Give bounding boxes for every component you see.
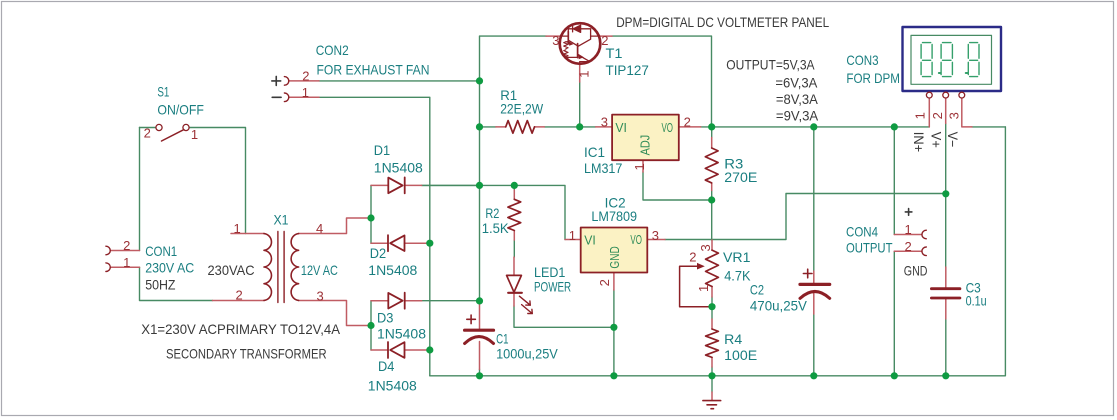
transformer X1 secondary winding — [291, 234, 298, 301]
svg-text:12V AC: 12V AC — [301, 262, 338, 278]
svg-text:=9V,3A: =9V,3A — [776, 108, 819, 124]
diode D1 — [388, 177, 404, 193]
pin D3 left — [371, 300, 388, 302]
svg-text:100E: 100E — [724, 347, 757, 363]
node D3 cathode — [476, 297, 483, 304]
node C1 ground — [476, 372, 483, 379]
svg-text:1: 1 — [191, 127, 198, 142]
svg-text:VR1: VR1 — [723, 249, 751, 265]
svg-text:VO: VO — [662, 121, 674, 135]
wire V- to right vertical — [972, 126, 1005, 128]
node C3 ground — [942, 372, 949, 379]
wire IC2 GND to ground rail — [613, 290, 615, 376]
svg-text:2: 2 — [905, 239, 912, 254]
resistor R3 — [705, 148, 718, 183]
svg-text:2: 2 — [684, 114, 691, 129]
svg-text:1N5408: 1N5408 — [377, 326, 426, 342]
svg-text:270E: 270E — [724, 169, 757, 185]
wire CON2 pin1 down DC-minus — [319, 97, 430, 376]
switch S1 — [156, 124, 189, 141]
pin C1 bottom — [479, 342, 481, 370]
svg-text:V+: V+ — [929, 132, 945, 148]
wire VR1 bottom to R4 — [711, 297, 713, 319]
node R1 left — [476, 123, 483, 130]
wire node to VR1 — [711, 200, 713, 240]
svg-text:VO: VO — [630, 233, 642, 247]
pin C3 top — [945, 267, 947, 288]
CON2 minus — [272, 96, 281, 98]
transistor T1 internals — [561, 25, 600, 64]
svg-text:V−: V− — [945, 132, 961, 148]
pin D4 left — [371, 349, 388, 351]
svg-text:GND: GND — [904, 263, 928, 279]
wire CON1 pin1 to X1 pin2 — [140, 267, 213, 300]
svg-text:1N5408: 1N5408 — [374, 160, 423, 176]
pin R3 top — [711, 138, 713, 149]
transformer X1 core — [278, 232, 284, 303]
node V+ — [942, 190, 949, 197]
resistor R2 — [508, 199, 521, 230]
pin VR1 bottom — [711, 287, 713, 298]
svg-text:2: 2 — [144, 126, 151, 141]
pin CON4 p2 — [894, 250, 922, 252]
wire top rail left to T1 — [480, 36, 547, 303]
svg-text:CON4: CON4 — [846, 223, 878, 239]
svg-text:R4: R4 — [724, 331, 742, 347]
node D4 anode — [426, 346, 433, 353]
pin D4 right — [405, 349, 430, 351]
pin IC2 VI — [565, 239, 581, 241]
svg-text:D2: D2 — [370, 245, 387, 261]
svg-text:OUTPUT=5V,3A: OUTPUT=5V,3A — [726, 57, 815, 73]
pin R2 top — [513, 190, 515, 199]
pin C3 bottom — [945, 299, 947, 319]
capacitor C3 — [931, 287, 960, 290]
svg-text:ADJ: ADJ — [638, 135, 652, 156]
C1 plus — [467, 315, 476, 324]
svg-text:DPM=DIGITAL DC VOLTMETER PANEL: DPM=DIGITAL DC VOLTMETER PANEL — [616, 14, 829, 30]
pin VR1 top — [711, 240, 713, 250]
pin R3 bottom — [711, 183, 713, 191]
svg-text:4.7K: 4.7K — [724, 267, 751, 283]
pin T1 right — [600, 35, 612, 37]
ground symbol — [703, 401, 721, 409]
node VR1 wiper — [708, 303, 715, 310]
pin T1 base stub — [579, 64, 581, 82]
node R3 bottom / ADJ — [708, 196, 715, 203]
pin CON2 p1 — [289, 96, 319, 98]
svg-text:IN+: IN+ — [911, 132, 927, 152]
wire R2 to LED — [513, 240, 515, 257]
svg-text:TIP127: TIP127 — [606, 62, 650, 78]
wire ground stub — [711, 376, 713, 392]
wire V+ vertical — [945, 123, 947, 267]
pin CON3 p3 — [962, 98, 972, 127]
CON4 plus — [905, 209, 912, 216]
svg-text:VI: VI — [584, 234, 596, 248]
svg-text:2: 2 — [597, 279, 612, 286]
svg-text:LM7809: LM7809 — [591, 208, 637, 224]
pin CON1 p2 — [110, 250, 139, 252]
connector CON4 hooks — [922, 230, 926, 255]
svg-text:C2: C2 — [750, 281, 764, 297]
pin D2 right — [405, 242, 430, 244]
wire D1 row to R2 rail and IC2 VI — [422, 185, 565, 239]
pin IC1 VI — [596, 126, 612, 128]
svg-text:2: 2 — [302, 68, 309, 83]
pin X1 p2 — [213, 300, 265, 302]
wire R2 top stub — [513, 185, 515, 190]
pin D3 right — [405, 300, 422, 302]
display CON3 outer box — [903, 27, 1002, 91]
node CON2+ on DC+ — [476, 77, 483, 84]
potentiometer VR1 body — [706, 250, 719, 286]
node IC2 GND ground — [610, 372, 617, 379]
svg-text:4: 4 — [316, 221, 323, 236]
node CON4 plus — [891, 123, 898, 130]
svg-text:1: 1 — [576, 71, 591, 78]
wire R1 right to IC1 VI — [544, 126, 595, 128]
node C2 top — [810, 123, 817, 130]
svg-text:230VAC: 230VAC — [208, 262, 255, 278]
LED LED1 body — [507, 275, 522, 292]
decimal points — [939, 72, 968, 74]
svg-text:SECONDARY TRANSFORMER: SECONDARY TRANSFORMER — [166, 346, 327, 362]
wire C2 bottom — [813, 314, 815, 376]
pin IC1 ADJ — [642, 160, 644, 172]
node AC1 — [367, 214, 374, 221]
svg-text:3: 3 — [947, 112, 962, 119]
svg-text:2: 2 — [601, 33, 608, 48]
svg-text:1.5K: 1.5K — [482, 220, 510, 236]
pin X1 p3 — [299, 301, 369, 326]
pin R4 top — [711, 319, 713, 329]
node IC1 VO / R3 — [708, 123, 715, 130]
pin IC2 VO — [647, 239, 665, 241]
svg-text:LM317: LM317 — [584, 160, 623, 176]
pin ground stub — [711, 392, 713, 400]
svg-text:1000u,25V: 1000u,25V — [496, 346, 558, 362]
svg-text:22E,2W: 22E,2W — [500, 101, 544, 117]
wire IC2 VO to V+ — [665, 194, 946, 240]
pin CON3 p1 — [928, 98, 930, 127]
node D2 anode — [426, 240, 433, 247]
pin IC1 VO — [679, 126, 701, 128]
svg-text:470u,25V: 470u,25V — [750, 298, 808, 314]
wire S1 right to X1 pin1 — [190, 128, 246, 234]
svg-text:3: 3 — [652, 228, 659, 243]
pin IC2 GND — [613, 273, 615, 291]
regulator IC2 LM7809 box — [581, 228, 648, 273]
display CON3 pin circles — [926, 92, 964, 98]
wire D3 cathode to node — [422, 300, 480, 302]
pin C2 top — [813, 271, 815, 283]
wire R1 left stub — [480, 126, 496, 128]
wire bridge AC2 vertical — [370, 301, 372, 350]
capacitor C1 — [465, 329, 494, 332]
svg-text:=6V,3A: =6V,3A — [775, 75, 818, 91]
node CON4 ground — [891, 372, 898, 379]
svg-text:IC1: IC1 — [584, 144, 605, 160]
svg-text:CON2: CON2 — [316, 42, 349, 58]
svg-text:D4: D4 — [378, 358, 395, 374]
wire D1 cathode to node — [422, 184, 480, 186]
svg-text:1: 1 — [913, 112, 928, 119]
svg-text:VI: VI — [615, 121, 627, 135]
svg-text:1: 1 — [123, 255, 130, 270]
wire CON4 minus — [893, 251, 895, 375]
svg-text:1N5408: 1N5408 — [368, 378, 417, 394]
svg-text:R2: R2 — [485, 205, 499, 221]
wire LED bottom to IC2 GND node — [514, 306, 614, 327]
pin CON4 p1 — [894, 234, 922, 236]
svg-text:1: 1 — [905, 222, 912, 237]
transformer X1 primary winding — [264, 234, 271, 301]
wire bridge AC1 vertical — [370, 185, 372, 243]
svg-text:X1=230V ACPRIMARY TO12V,4A: X1=230V ACPRIMARY TO12V,4A — [141, 321, 340, 337]
wire IC1 VO to output rail — [701, 126, 930, 128]
capacitor C2 — [800, 283, 830, 286]
wire ground bottom rail — [430, 127, 1006, 376]
resistor R1 — [506, 121, 535, 134]
svg-text:OUTPUT: OUTPUT — [846, 240, 893, 256]
node R2 top — [511, 182, 518, 189]
wire R3 stubs — [711, 127, 713, 138]
node C2 ground — [810, 372, 817, 379]
wire C3 bottom — [945, 319, 947, 376]
svg-text:3: 3 — [317, 289, 324, 304]
svg-text:1: 1 — [632, 163, 647, 170]
wire R4 bottom — [711, 367, 713, 376]
svg-text:1: 1 — [696, 285, 711, 292]
svg-text:2: 2 — [236, 288, 243, 303]
potentiometer VR1 wiper — [680, 266, 709, 307]
svg-text:50HZ: 50HZ — [145, 277, 176, 293]
pin D1 left — [371, 184, 388, 186]
C2 plus — [803, 269, 812, 278]
display 7-segment digits — [921, 43, 979, 77]
svg-text:FOR EXHAUST FAN: FOR EXHAUST FAN — [317, 61, 430, 77]
wire CON2 pin2 to node — [319, 80, 480, 82]
pin CON1 p1 — [110, 266, 139, 268]
pin X1 p4 — [299, 218, 369, 234]
node R4 ground — [708, 372, 715, 379]
pin CON3 p2 — [945, 98, 947, 123]
svg-text:3: 3 — [698, 244, 713, 251]
svg-text:2: 2 — [689, 249, 696, 264]
pin T1 left — [546, 35, 561, 37]
svg-text:=8V,3A: =8V,3A — [776, 91, 819, 107]
diode D2 — [388, 235, 405, 251]
node LED / IC2 GND — [610, 324, 617, 331]
svg-text:GND: GND — [608, 246, 622, 268]
pin LED bottom — [513, 294, 515, 306]
svg-text:X1: X1 — [274, 211, 289, 227]
pin C2 bottom — [813, 294, 815, 315]
svg-text:D3: D3 — [377, 309, 394, 325]
diode D3 — [388, 293, 404, 309]
pin D1 right — [405, 184, 422, 186]
diode D4 — [388, 342, 405, 358]
display CON3 inner bezel — [911, 35, 992, 84]
svg-text:CON3: CON3 — [846, 52, 878, 68]
svg-text:3: 3 — [601, 114, 608, 129]
wire T1 emitter down to VO node — [612, 36, 712, 127]
resistor R4 — [706, 329, 719, 357]
LED LED1 arrows — [519, 296, 532, 313]
svg-text:230V AC: 230V AC — [145, 260, 194, 276]
svg-text:0.1u: 0.1u — [966, 293, 987, 309]
pin D2 left — [371, 242, 388, 244]
wire C1 bottom to ground rail — [479, 369, 481, 376]
svg-text:POWER: POWER — [534, 278, 571, 294]
node R2 rail left — [476, 182, 483, 189]
wire T1 base down — [579, 82, 581, 127]
svg-text:1: 1 — [569, 228, 576, 243]
transistor T1 circle — [560, 23, 601, 64]
op-amp/regulator IC1 LM317 box — [612, 115, 679, 161]
pin LED top — [513, 257, 515, 275]
svg-text:2: 2 — [930, 112, 945, 119]
connector CON1 hooks — [106, 246, 110, 271]
svg-text:FOR DPM: FOR DPM — [846, 70, 900, 86]
pin X1 p1 — [231, 233, 264, 235]
pin R1 left — [496, 126, 506, 128]
wire IC1 ADJ to R3 bottom node — [643, 172, 712, 200]
svg-text:D1: D1 — [374, 142, 391, 158]
svg-text:ON/OFF: ON/OFF — [157, 102, 204, 118]
wire C2 branch from rail — [813, 127, 815, 271]
svg-text:C1: C1 — [496, 331, 509, 347]
svg-text:1: 1 — [234, 221, 241, 236]
node T1 base — [576, 123, 583, 130]
pin R4 bottom — [711, 357, 713, 367]
wire CON4 plus — [893, 127, 895, 235]
svg-text:1N5408: 1N5408 — [368, 262, 417, 278]
potentiometer VR1 arrow head — [697, 263, 705, 270]
svg-text:S1: S1 — [157, 84, 169, 100]
wire S1 left to CON1 — [140, 127, 156, 129]
pin C1 top — [479, 303, 481, 329]
node AC2 — [367, 322, 374, 329]
svg-text:2: 2 — [123, 238, 130, 253]
pin CON2 p2 — [289, 80, 319, 82]
svg-text:3: 3 — [552, 33, 559, 48]
svg-text:1: 1 — [302, 85, 309, 100]
pin R2 bottom — [513, 231, 515, 240]
pin R1 right — [535, 126, 545, 128]
connector CON2 hooks — [284, 77, 288, 102]
svg-text:CON1: CON1 — [145, 243, 177, 259]
CON2 plus — [272, 76, 281, 85]
